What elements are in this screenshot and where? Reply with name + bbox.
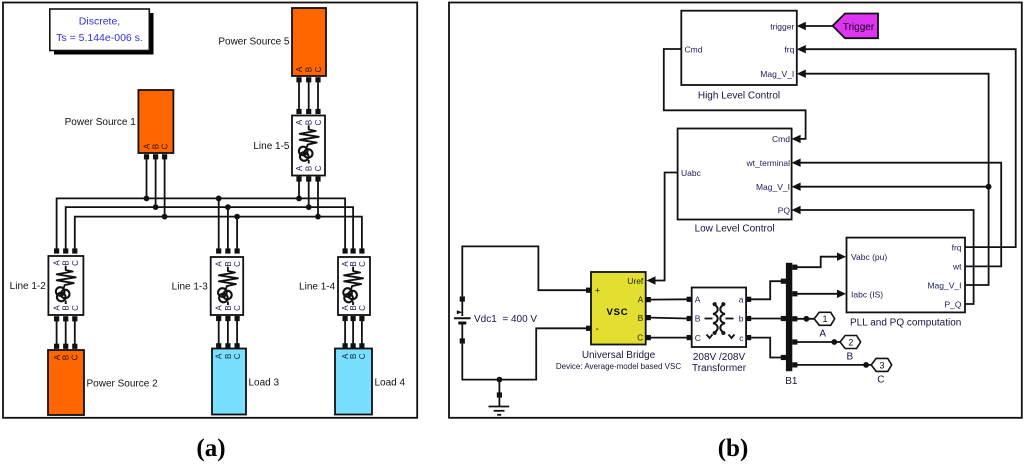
wire PLL P_Q to LLC PQ bbox=[792, 206, 974, 304]
svg-text:Line 1-4: Line 1-4 bbox=[299, 282, 336, 293]
bus wire phase A bbox=[57, 198, 346, 248]
svg-text:(b): (b) bbox=[718, 435, 749, 462]
wires bridge ABC to transformer bbox=[646, 297, 692, 341]
block Universal Bridge VSC bbox=[556, 272, 681, 371]
svg-text:Vabc (pu): Vabc (pu) bbox=[851, 252, 887, 262]
ports Power Source 2 top bbox=[54, 344, 77, 349]
wire branch Mag_V_I to LLC bbox=[792, 183, 992, 191]
svg-text:B: B bbox=[846, 352, 853, 363]
wire Vdc1 plus to bridge bbox=[462, 246, 591, 296]
svg-text:trigger: trigger bbox=[770, 22, 794, 32]
svg-text:A: A bbox=[819, 329, 826, 340]
output port 3 (C) bbox=[792, 358, 892, 385]
svg-text:Trigger: Trigger bbox=[843, 22, 875, 33]
panel (a) frame bbox=[3, 3, 417, 418]
svg-text:frq: frq bbox=[784, 44, 794, 54]
block Line 1-3 bbox=[172, 257, 244, 315]
bus wire phase C bbox=[75, 217, 362, 249]
svg-text:B: B bbox=[695, 314, 701, 324]
svg-text:B: B bbox=[349, 261, 358, 266]
wire transformer b to B1 bbox=[746, 316, 786, 321]
block Line 1-5 bbox=[253, 116, 325, 176]
svg-text:C: C bbox=[314, 119, 323, 125]
svg-text:-: - bbox=[596, 324, 599, 335]
svg-text:B: B bbox=[305, 166, 314, 171]
svg-text:Power Source 1: Power Source 1 bbox=[65, 117, 137, 128]
ports Power Source 5 bbox=[296, 77, 320, 82]
svg-text:VSC: VSC bbox=[607, 307, 629, 318]
svg-text:C: C bbox=[71, 354, 80, 360]
svg-text:C: C bbox=[71, 260, 80, 266]
wire PLL wt to LLC wt_terminal bbox=[792, 159, 1002, 267]
svg-text:PLL and PQ computation: PLL and PQ computation bbox=[850, 318, 961, 329]
svg-text:208V /208V: 208V /208V bbox=[693, 352, 746, 363]
ports Line 1-3 bottom bbox=[216, 316, 240, 321]
svg-text:3: 3 bbox=[879, 360, 884, 370]
Trigger goto tag bbox=[833, 14, 878, 39]
ports Line 1-4 bottom bbox=[343, 316, 365, 321]
svg-text:C: C bbox=[233, 305, 242, 311]
ports Load 4 top bbox=[343, 343, 365, 348]
svg-text:Mag_V_I: Mag_V_I bbox=[760, 69, 794, 79]
svg-text:C: C bbox=[358, 305, 367, 311]
svg-text:C: C bbox=[877, 375, 884, 386]
svg-text:A: A bbox=[53, 305, 62, 311]
svg-text:Uref: Uref bbox=[627, 276, 644, 286]
DC voltage source Vdc1 bbox=[454, 296, 537, 343]
block Power Source 1 bbox=[65, 90, 174, 153]
wire transformer a to B1 bbox=[746, 279, 786, 302]
svg-text:Vdc1 = 400 V: Vdc1 = 400 V bbox=[474, 314, 537, 325]
block Load 4 bbox=[335, 349, 406, 415]
svg-text:Uabc: Uabc bbox=[681, 168, 702, 178]
svg-text:Device: Average-model based VS: Device: Average-model based VSC bbox=[556, 362, 681, 371]
svg-text:Power Source 5: Power Source 5 bbox=[218, 37, 290, 48]
svg-text:A: A bbox=[295, 119, 304, 125]
block Load 3 bbox=[212, 349, 280, 415]
wires Line 1-4 to Load 4 bbox=[345, 321, 362, 344]
wire B1 to PLL Vabc bbox=[792, 253, 846, 270]
svg-text:B1: B1 bbox=[785, 376, 798, 387]
block PLL and PQ computation bbox=[847, 238, 966, 329]
svg-text:Transformer: Transformer bbox=[692, 363, 747, 374]
block High Level Control U-HLC bbox=[681, 11, 797, 102]
svg-text:C: C bbox=[358, 261, 367, 267]
svg-text:B: B bbox=[62, 260, 71, 265]
svg-text:Discrete,: Discrete, bbox=[79, 16, 120, 28]
svg-text:B: B bbox=[349, 354, 358, 359]
wire transformer c to B1 bbox=[746, 335, 786, 360]
ground symbol bbox=[489, 377, 510, 415]
output port 2 (B) bbox=[792, 336, 860, 363]
svg-text:Low Level Control: Low Level Control bbox=[695, 224, 775, 235]
block 208V/208V Transformer bbox=[692, 288, 747, 375]
svg-text:C: C bbox=[71, 305, 80, 311]
svg-text:C: C bbox=[161, 143, 170, 149]
ports Line 1-4 top bbox=[343, 248, 365, 253]
svg-text:(a): (a) bbox=[196, 435, 225, 462]
svg-text:C: C bbox=[314, 66, 323, 72]
svg-text:B: B bbox=[224, 261, 233, 266]
svg-text:Line 1-2: Line 1-2 bbox=[10, 281, 47, 292]
svg-text:B: B bbox=[62, 355, 71, 360]
svg-text:A: A bbox=[215, 261, 224, 267]
svg-text:B: B bbox=[305, 120, 314, 125]
svg-text:PQ: PQ bbox=[778, 205, 791, 215]
svg-text:A: A bbox=[215, 353, 224, 359]
svg-text:wt_terminal: wt_terminal bbox=[746, 158, 791, 168]
svg-text:Universal Bridge: Universal Bridge bbox=[582, 350, 656, 361]
svg-text:A: A bbox=[295, 66, 304, 72]
svg-text:A: A bbox=[695, 294, 701, 304]
svg-text:Cmd: Cmd bbox=[685, 44, 703, 54]
svg-text:+: + bbox=[595, 285, 600, 295]
wires Line 1-2 to Power Source 2 bbox=[57, 321, 75, 344]
bus bar B1 bbox=[785, 263, 798, 387]
wire B1 to PLL Iabc bbox=[792, 290, 846, 298]
svg-text:B: B bbox=[305, 67, 314, 72]
block Power Source 2 bbox=[48, 350, 158, 415]
svg-text:Load 4: Load 4 bbox=[375, 378, 406, 389]
svg-text:wt: wt bbox=[952, 262, 962, 272]
ports Line 1-5 top bbox=[296, 109, 320, 114]
ports Line 1-5 bottom bbox=[296, 176, 320, 181]
wire Trigger to trigger input bbox=[797, 22, 833, 30]
junction dots bus B bbox=[153, 204, 312, 210]
ports Line 1-2 bottom bbox=[54, 316, 77, 321]
svg-text:P_Q: P_Q bbox=[944, 299, 961, 309]
output port 1 (A) bbox=[792, 312, 835, 339]
panel (b) frame bbox=[449, 3, 1022, 418]
svg-text:A: A bbox=[295, 165, 304, 171]
svg-text:C: C bbox=[233, 261, 242, 267]
svg-text:A: A bbox=[53, 354, 62, 360]
svg-text:frq: frq bbox=[952, 242, 962, 252]
svg-text:Line 1-3: Line 1-3 bbox=[172, 282, 209, 293]
svg-text:Line 1-5: Line 1-5 bbox=[253, 141, 290, 152]
svg-text:Iabc (IS): Iabc (IS) bbox=[851, 289, 883, 299]
wire LLC Uabc to bridge Uref bbox=[647, 173, 678, 285]
block Line 1-2 bbox=[10, 256, 84, 315]
svg-text:C: C bbox=[358, 353, 367, 359]
wire PLL Mag_V_I to HLC Mag_V_I bbox=[797, 70, 989, 286]
Discrete sample-time box bbox=[50, 9, 154, 55]
svg-text:1: 1 bbox=[822, 314, 827, 324]
junction dots bus C bbox=[162, 214, 321, 220]
svg-text:a: a bbox=[739, 294, 744, 304]
wire HLC Cmd to LLC Cmd bbox=[664, 49, 806, 143]
svg-text:A: A bbox=[143, 143, 152, 149]
svg-text:2: 2 bbox=[848, 337, 853, 347]
svg-text:High Level Control: High Level Control bbox=[698, 91, 780, 102]
svg-text:C: C bbox=[233, 353, 242, 359]
svg-text:C: C bbox=[637, 333, 643, 343]
ports Load 3 top bbox=[216, 343, 240, 348]
wire PLL frq to HLC frq bbox=[797, 45, 1016, 247]
svg-text:A: A bbox=[215, 305, 224, 311]
svg-text:A: A bbox=[638, 295, 644, 305]
junction dots bus A bbox=[144, 196, 302, 202]
wires Power Source 1 to bus bbox=[147, 159, 165, 217]
wire Vdc1 minus to bridge bbox=[462, 326, 591, 380]
bus wire phase B bbox=[66, 207, 353, 249]
svg-text:Load 3: Load 3 bbox=[249, 378, 280, 389]
svg-text:Cmd: Cmd bbox=[772, 134, 790, 144]
svg-text:B: B bbox=[224, 354, 233, 359]
block Power Source 5 bbox=[218, 8, 326, 76]
wires Power Source 5 to Line 1-5 bbox=[299, 82, 318, 109]
wires Line 1-5 to bus bbox=[299, 182, 318, 217]
svg-text:B: B bbox=[224, 305, 233, 310]
svg-text:C: C bbox=[314, 165, 323, 171]
svg-text:A: A bbox=[53, 260, 62, 266]
svg-text:b: b bbox=[739, 314, 744, 324]
svg-text:C: C bbox=[695, 333, 701, 343]
svg-text:B: B bbox=[638, 313, 644, 323]
svg-text:B: B bbox=[349, 305, 358, 310]
svg-text:Mag_V_I: Mag_V_I bbox=[927, 280, 961, 290]
block Line 1-4 bbox=[299, 257, 370, 315]
svg-text:Power Source 2: Power Source 2 bbox=[87, 379, 159, 390]
svg-text:Ts = 5.144e-006 s.: Ts = 5.144e-006 s. bbox=[56, 32, 143, 44]
ports Line 1-3 top bbox=[216, 248, 240, 253]
block Low Level Control U-LLC bbox=[678, 129, 792, 235]
wires bus to Line 1-3 bbox=[219, 198, 237, 248]
wires Line 1-3 to Load 3 bbox=[219, 321, 237, 344]
svg-text:B: B bbox=[152, 144, 161, 149]
ports Line 1-2 top bbox=[54, 248, 77, 253]
svg-text:Mag_V_I: Mag_V_I bbox=[756, 182, 790, 192]
svg-text:B: B bbox=[62, 305, 71, 310]
ports Power Source 1 bbox=[144, 154, 167, 159]
